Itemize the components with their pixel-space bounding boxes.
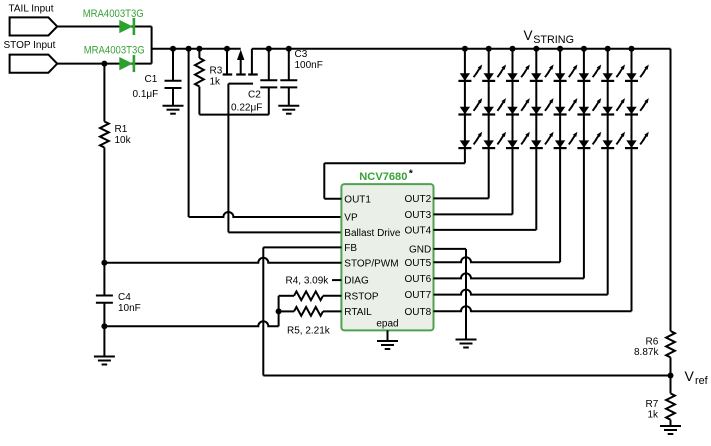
- svg-text:*: *: [409, 169, 413, 180]
- svg-text:NCV7680: NCV7680: [359, 171, 407, 183]
- svg-text:R3: R3: [210, 66, 223, 77]
- svg-text:OUT8: OUT8: [405, 307, 432, 318]
- svg-text:OUT5: OUT5: [405, 258, 432, 269]
- svg-text:R7: R7: [646, 399, 659, 410]
- svg-text:epad: epad: [376, 319, 398, 330]
- svg-text:R1: R1: [115, 124, 128, 135]
- svg-text:OUT6: OUT6: [405, 274, 432, 285]
- svg-text:8.87k: 8.87k: [634, 347, 659, 358]
- svg-text:OUT2: OUT2: [405, 194, 432, 205]
- svg-text:C1: C1: [145, 74, 158, 85]
- svg-text:0.1μF: 0.1μF: [133, 89, 159, 100]
- svg-text:RTAIL: RTAIL: [344, 307, 372, 318]
- svg-text:MRA4003T3G: MRA4003T3G: [84, 45, 145, 57]
- svg-text:STOP Input: STOP Input: [4, 40, 56, 51]
- svg-text:10nF: 10nF: [118, 303, 141, 314]
- svg-text:1k: 1k: [210, 77, 222, 88]
- svg-text:C3: C3: [295, 49, 308, 60]
- svg-text:V: V: [524, 28, 533, 43]
- svg-text:C4: C4: [118, 292, 131, 303]
- svg-text:ref: ref: [695, 375, 709, 387]
- svg-text:V: V: [685, 368, 695, 384]
- svg-text:GND: GND: [409, 245, 431, 256]
- svg-text:OUT4: OUT4: [405, 226, 432, 237]
- svg-text:STRING: STRING: [533, 34, 574, 46]
- svg-text:RSTOP: RSTOP: [344, 291, 379, 302]
- svg-text:DIAG: DIAG: [344, 276, 369, 287]
- svg-text:STOP/PWM: STOP/PWM: [344, 258, 398, 269]
- svg-text:100nF: 100nF: [295, 60, 323, 71]
- svg-text:C2: C2: [248, 90, 261, 101]
- svg-text:0.22μF: 0.22μF: [231, 103, 262, 114]
- svg-text:OUT3: OUT3: [405, 210, 432, 221]
- svg-text:R6: R6: [646, 337, 659, 348]
- svg-text:1k: 1k: [648, 410, 660, 421]
- svg-text:TAIL Input: TAIL Input: [9, 4, 54, 15]
- svg-text:OUT7: OUT7: [405, 290, 432, 301]
- svg-text:Ballast Drive: Ballast Drive: [344, 228, 401, 239]
- svg-text:VP: VP: [344, 213, 358, 224]
- svg-text:10k: 10k: [115, 135, 132, 146]
- svg-text:FB: FB: [344, 243, 357, 254]
- svg-text:R5, 2.21k: R5, 2.21k: [287, 326, 331, 337]
- svg-text:OUT1: OUT1: [344, 194, 371, 205]
- svg-text:MRA4003T3G: MRA4003T3G: [83, 9, 144, 21]
- svg-text:R4, 3.09k: R4, 3.09k: [286, 276, 330, 287]
